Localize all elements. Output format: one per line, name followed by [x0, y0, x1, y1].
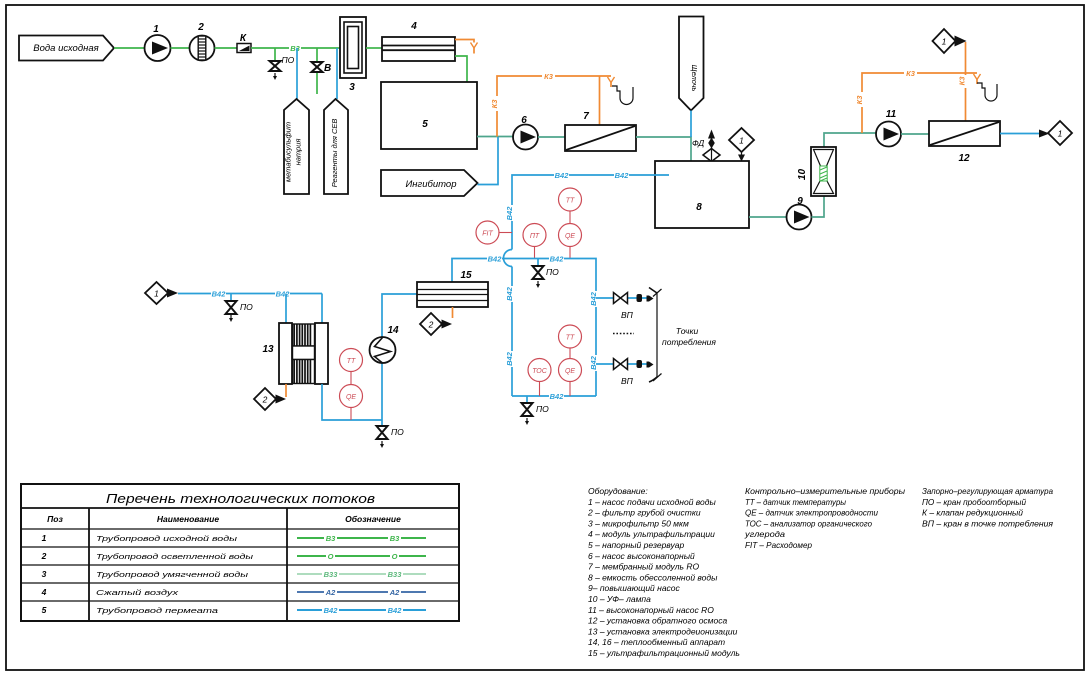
node/label B3 on green line	[289, 44, 301, 53]
svg-text:В42: В42	[550, 255, 565, 264]
flag: Щелочь	[679, 17, 704, 111]
svg-text:12: 12	[958, 153, 970, 164]
valve ПО below heat exchanger line	[377, 420, 405, 448]
svg-text:14: 14	[387, 325, 399, 336]
flag: Реагенты для СЕВ	[324, 99, 348, 194]
legend column: Контрольно-измерительные приборы	[744, 486, 906, 550]
svg-text:В42: В42	[505, 351, 514, 366]
wire: teal line tank 5 to pump 6	[477, 136, 513, 138]
svg-text:9– повышающий насос: 9– повышающий насос	[588, 583, 681, 593]
svg-text:ПО: ПО	[240, 302, 253, 312]
pump 11 (высоконапорный насос RO)	[876, 109, 901, 147]
svg-text:В: В	[324, 63, 331, 74]
filter 2 (фильтр грубой очистки)	[190, 22, 215, 61]
svg-text:5 – напорный резервуар: 5 – напорный резервуар	[588, 540, 684, 550]
legend column: Запорно-регулирующая арматура	[922, 486, 1053, 528]
svg-text:В42: В42	[488, 255, 503, 264]
svg-text:ПО: ПО	[536, 404, 549, 414]
svg-text:11 – высоконапорный насос RO: 11 – высоконапорный насос RO	[588, 605, 714, 615]
svg-text:13 – установка электродеиониз: 13 – установка электродеионизации	[588, 626, 738, 636]
valve В on green stub	[312, 48, 332, 94]
svg-text:К3: К3	[855, 95, 864, 105]
wire: green line pump1 to filter 2	[171, 47, 191, 49]
wire: teal line pump 11 to unit 12	[901, 133, 929, 135]
svg-text:10 – УФ– лампа: 10 – УФ– лампа	[588, 594, 651, 604]
heat exchanger 14	[370, 325, 399, 363]
legend column: Оборудование	[587, 486, 740, 658]
svg-text:2: 2	[41, 551, 47, 561]
flag 2 drain at module 15	[420, 313, 452, 335]
svg-text:В42: В42	[388, 606, 403, 615]
svg-text:О: О	[392, 552, 398, 561]
flag 1 inlet at lower-left branch	[145, 282, 178, 304]
vent filter ФД on tank 8	[692, 130, 720, 162]
svg-text:4: 4	[41, 587, 47, 597]
valve K (клапан редукционный)	[237, 33, 251, 53]
pump 9 (повышающий насос)	[787, 196, 812, 230]
flag 1 (air) at K3 line top right	[933, 29, 967, 53]
svg-text:ТТ: ТТ	[566, 198, 575, 205]
svg-text:В33: В33	[324, 570, 339, 579]
svg-text:9: 9	[797, 196, 803, 207]
svg-text:4 – модуль ультрафильтрации: 4 – модуль ультрафильтрации	[588, 529, 715, 539]
svg-text:1: 1	[42, 533, 47, 543]
svg-text:1: 1	[739, 136, 744, 146]
svg-text:3: 3	[349, 82, 355, 93]
wire: teal line module 7 to tank 8	[636, 137, 691, 174]
svg-text:Перечень технологических поток: Перечень технологических потоков	[106, 491, 375, 506]
svg-text:QE: QE	[565, 368, 575, 375]
svg-text:QE: QE	[565, 233, 575, 240]
svg-text:2: 2	[197, 22, 204, 33]
table: перечень технологических потоков	[21, 484, 459, 621]
svg-text:7 – мембранный модуль RO: 7 – мембранный модуль RO	[588, 562, 699, 572]
wire: blue outlet of unit 13 to heat exchanger line	[322, 384, 382, 420]
svg-text:15 – ультрафильтрационный мод: 15 – ультрафильтрационный модуль	[588, 648, 740, 658]
table flow sample row 4: А2 dark blue	[297, 588, 426, 597]
wire: orange concentrate stub from module 15	[452, 307, 454, 318]
flag: метабисульфит натрия	[284, 99, 310, 194]
membrane module 7 (мембранный модуль RO)	[565, 111, 636, 151]
wire: blue permeate outlet to flag 1	[1000, 121, 1072, 145]
instrument TT at unit 13 outlet	[340, 349, 363, 385]
svg-text:Наименование: Наименование	[157, 514, 219, 524]
svg-text:FIT – Расходомер: FIT – Расходомер	[745, 540, 812, 550]
wire: green main line valve K to microfilter 3	[251, 47, 340, 49]
svg-text:QE – датчик электропроводност: QE – датчик электропроводности	[745, 508, 878, 518]
svg-text:ТОС: ТОС	[532, 368, 548, 375]
svg-text:К3: К3	[544, 72, 554, 81]
svg-text:К: К	[240, 33, 247, 44]
wire: orange K3 line to unit 12 and drain	[855, 42, 977, 133]
svg-text:ВП – кран в точке потребления: ВП – кран в точке потребления	[922, 518, 1053, 528]
svg-text:В3: В3	[290, 44, 300, 53]
wire: blue inhibitor line up to teal main line	[478, 137, 499, 185]
svg-text:Ингибитор: Ингибитор	[406, 179, 457, 190]
valve ПО on B42 line	[226, 294, 254, 323]
svg-text:В42: В42	[324, 606, 339, 615]
svg-text:потребления: потребления	[662, 337, 716, 347]
wire: teal line pump 6 to module 7	[538, 136, 565, 138]
svg-text:8 – емкость обессоленной вод: 8 – емкость обессоленной воды	[588, 572, 718, 582]
svg-text:О: О	[328, 552, 334, 561]
svg-text:Обозначение: Обозначение	[345, 514, 401, 524]
svg-text:15: 15	[460, 270, 472, 281]
svg-text:6: 6	[521, 115, 527, 126]
svg-text:Трубопровод пермеата: Трубопровод пермеата	[96, 606, 218, 615]
consumption tap ВП lower	[596, 359, 654, 387]
svg-text:1: 1	[942, 37, 947, 47]
microfilter 3 (микрофильтр 50 мкм)	[340, 17, 366, 93]
flag 1 (air) into tank 8	[729, 128, 754, 162]
table flow sample row 5: В42 blue	[297, 606, 426, 615]
valve ПО below bottom ring line	[522, 396, 550, 425]
wire: blue drops into unit 13	[285, 294, 287, 324]
svg-text:В3: В3	[326, 534, 336, 543]
drain funnel at right K3 end	[974, 74, 998, 101]
svg-text:13: 13	[262, 344, 274, 355]
svg-text:Трубопровод осветленной воды: Трубопровод осветленной воды	[96, 552, 254, 561]
svg-text:В42: В42	[615, 171, 630, 180]
wire: blue line B42 to unit 13	[178, 290, 322, 299]
wire: green main line B3 from flag to pump 1	[114, 47, 145, 49]
wire: green line module 4 down into tank 5	[455, 56, 467, 95]
module 4 (модуль ультрафильтрации)	[382, 21, 455, 61]
svg-text:ПО: ПО	[391, 427, 404, 437]
svg-text:ПО – кран пробоотборный: ПО – кран пробоотборный	[922, 497, 1026, 507]
svg-text:Поз: Поз	[47, 514, 63, 524]
RO unit 12 (установка обратного осмоса)	[929, 121, 1000, 164]
svg-text:Контрольно–измерительные прибо: Контрольно–измерительные приборы	[745, 486, 906, 496]
svg-text:В42: В42	[505, 286, 514, 301]
svg-text:3 – микрофильтр 50 мкм: 3 – микрофильтр 50 мкм	[588, 518, 689, 528]
svg-text:12 – установка обратного осмо: 12 – установка обратного осмоса	[588, 616, 727, 626]
svg-text:Сжатый воздух: Сжатый воздух	[96, 588, 178, 597]
flag: Вода исходная	[19, 36, 114, 61]
drain funnel at K3 line end	[608, 77, 634, 105]
svg-text:6 – насос высоконапорный: 6 – насос высоконапорный	[588, 551, 695, 561]
svg-text:ФД: ФД	[692, 138, 704, 148]
pump 1 (насос подачи исходной воды)	[145, 24, 171, 61]
svg-text:В42: В42	[555, 171, 570, 180]
svg-text:В42: В42	[505, 206, 514, 221]
svg-text:1: 1	[153, 24, 159, 35]
svg-text:QE: QE	[346, 394, 356, 401]
bracket: точки потребления	[649, 288, 716, 383]
wire: green line filter 2 to valve K	[215, 47, 238, 49]
instrument QE at unit 13 outlet	[340, 385, 363, 421]
wire: blue dosing line from Щелочь flag	[690, 111, 692, 138]
instrument TT lower	[559, 325, 582, 359]
svg-text:Запорно–регулирующая арматура: Запорно–регулирующая арматура	[922, 486, 1053, 496]
svg-text:А2: А2	[325, 588, 336, 597]
svg-text:10: 10	[797, 169, 808, 181]
svg-text:ПО: ПО	[546, 267, 559, 277]
instrument ПТ	[523, 224, 546, 259]
instrument QE lower	[559, 359, 582, 397]
instrument QE upper	[559, 224, 582, 259]
table flow sample row 1: B3 green	[297, 534, 426, 543]
svg-text:К – клапан редукционный: К – клапан редукционный	[922, 508, 1023, 518]
valve ПО below upper ring line	[533, 259, 560, 289]
svg-text:В42: В42	[589, 355, 598, 370]
svg-text:ТТ – датчик температуры: ТТ – датчик температуры	[745, 497, 847, 507]
instrument ТОС	[528, 359, 551, 397]
svg-text:Щелочь: Щелочь	[690, 65, 699, 92]
svg-text:ТТ: ТТ	[566, 335, 575, 342]
svg-text:Вода исходная: Вода исходная	[33, 43, 98, 54]
wire: blue dosing line to flag метабисульфит натрия	[296, 48, 298, 99]
svg-text:А2: А2	[389, 588, 400, 597]
wire: teal line pump 9 up to pump 11	[812, 133, 877, 217]
dotted continuation between taps	[613, 333, 634, 335]
svg-text:метабисульфит: метабисульфит	[284, 122, 293, 182]
svg-text:К3: К3	[906, 69, 916, 78]
svg-text:натрия: натрия	[294, 139, 303, 166]
svg-text:7: 7	[583, 111, 589, 122]
ultrafiltration module 15	[417, 270, 488, 307]
svg-text:2 – фильтр грубой очистки: 2 – фильтр грубой очистки	[587, 508, 701, 518]
wire: blue dosing line to flag Реагенты для СЕВ	[336, 48, 338, 99]
svg-text:FIT: FIT	[482, 231, 493, 238]
svg-text:8: 8	[696, 202, 702, 213]
svg-text:углерода: углерода	[744, 529, 785, 539]
svg-text:В3: В3	[390, 534, 400, 543]
UV lamp 10 (УФ-лампа)	[797, 147, 836, 196]
svg-text:2: 2	[428, 320, 434, 330]
instrument FIT (расходомер)	[476, 221, 512, 244]
svg-text:В33: В33	[388, 570, 403, 579]
svg-text:2: 2	[262, 395, 268, 405]
svg-text:ПО: ПО	[282, 55, 295, 65]
svg-text:11: 11	[886, 109, 897, 120]
table flow sample row 2: О green	[297, 552, 426, 561]
svg-text:К3: К3	[490, 99, 499, 109]
wire: teal line tank 8 to pump 9	[749, 216, 787, 218]
svg-text:1: 1	[1058, 129, 1063, 139]
pump 6 (насос высоконапорный)	[513, 115, 538, 150]
wire: green line 3 to 4	[366, 47, 382, 49]
svg-text:К3: К3	[958, 76, 967, 86]
svg-text:5: 5	[422, 119, 428, 130]
wire: blue permeate line from module 15 top to ring	[452, 255, 600, 397]
svg-text:Трубопровод умягченной воды: Трубопровод умягченной воды	[96, 570, 249, 579]
wire: orange K3 concentrate line over module 7	[490, 72, 611, 137]
wire: blue permeate header into tank 8	[504, 171, 670, 396]
svg-text:Точки: Точки	[676, 326, 699, 336]
flag 2 drain at unit 13	[254, 388, 286, 410]
svg-text:4: 4	[410, 21, 417, 32]
svg-text:14, 16 – теплообменный аппар: 14, 16 – теплообменный аппарат	[588, 637, 725, 647]
svg-text:1 – насос подачи исходной во: 1 – насос подачи исходной воды	[588, 497, 716, 507]
svg-text:ПТ: ПТ	[530, 233, 540, 240]
svg-text:Оборудование:: Оборудование:	[588, 486, 648, 496]
svg-text:3: 3	[42, 569, 47, 579]
valve ПО sample tap on main line	[270, 48, 295, 80]
svg-text:ВП: ВП	[621, 376, 634, 386]
flag: Ингибитор	[381, 170, 478, 196]
instrument TT upper	[559, 188, 582, 224]
svg-text:Трубопровод исходной воды: Трубопровод исходной воды	[96, 534, 238, 543]
table flow sample row 3: В33 thin green	[297, 570, 426, 579]
wire: orange concentrate stub from unit 13	[285, 384, 287, 397]
electrodeionization unit 13	[262, 323, 328, 384]
svg-text:ВП: ВП	[621, 310, 634, 320]
svg-text:5: 5	[42, 605, 47, 615]
wire: orange drain from module 4 with funnel	[455, 40, 478, 54]
consumption tap ВП upper	[596, 293, 654, 321]
tank 5 (напорный резервуар)	[381, 82, 477, 149]
tank 8 (емкость обессоленной воды)	[655, 161, 749, 228]
svg-text:В42: В42	[212, 290, 227, 299]
svg-text:1: 1	[154, 289, 159, 299]
wire: blue bottom ring line	[512, 392, 596, 401]
svg-text:ТТ: ТТ	[347, 358, 356, 365]
svg-text:В42: В42	[550, 392, 565, 401]
svg-text:ТОС – анализатор органическог: ТОС – анализатор органического	[745, 518, 872, 528]
svg-text:Реагенты для СЕВ: Реагенты для СЕВ	[330, 119, 339, 188]
wire: blue riser through heat exchanger 14 to module 15	[382, 294, 417, 420]
svg-text:В42: В42	[276, 290, 291, 299]
